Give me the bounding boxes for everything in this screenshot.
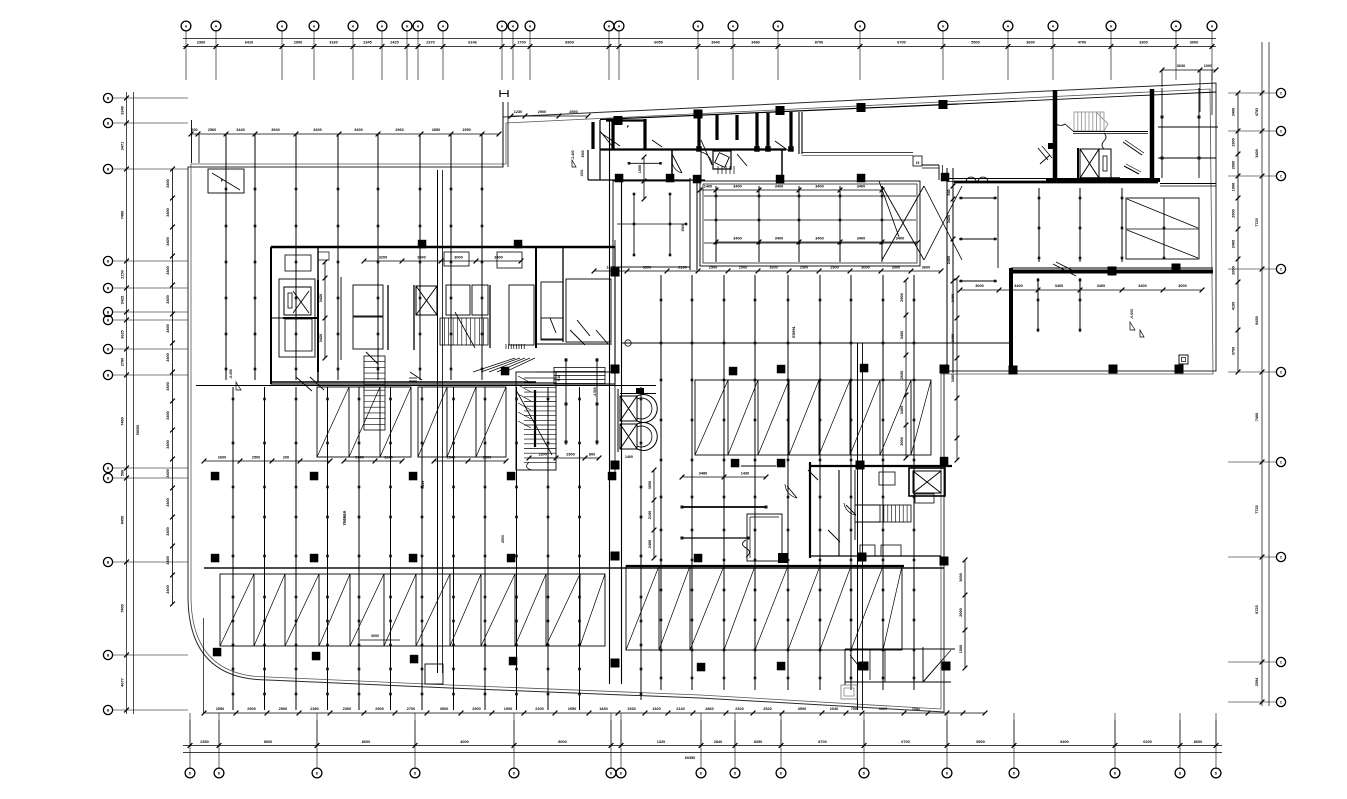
svg-text:3000: 3000: [959, 573, 963, 581]
svg-text:2200: 2200: [535, 707, 543, 711]
svg-text:3400: 3400: [313, 128, 321, 132]
svg-text:2300: 2300: [343, 707, 351, 711]
svg-text:-0.600: -0.600: [1130, 309, 1134, 319]
svg-text:3400: 3400: [1097, 284, 1105, 288]
svg-text:50650: 50650: [136, 425, 140, 436]
svg-text:2000: 2000: [959, 608, 963, 616]
svg-text:1900: 1900: [1232, 138, 1236, 146]
svg-text:1001: 1001: [580, 169, 584, 176]
svg-text:8700: 8700: [815, 41, 823, 45]
svg-text:540: 540: [947, 189, 951, 195]
svg-text:2950: 2950: [568, 707, 576, 711]
svg-text:3600: 3600: [1026, 41, 1034, 45]
svg-text:2780: 2780: [121, 358, 125, 366]
svg-text:2900: 2900: [538, 110, 546, 114]
svg-text:2320: 2320: [735, 707, 743, 711]
svg-text:1950: 1950: [462, 128, 470, 132]
svg-text:3000: 3000: [861, 266, 869, 270]
svg-text:4792: 4792: [1255, 108, 1259, 116]
svg-text:Y6666A: Y6666A: [342, 510, 347, 525]
svg-text:2900: 2900: [566, 453, 574, 457]
svg-text:4677: 4677: [121, 678, 125, 686]
svg-text:8450: 8450: [1255, 316, 1259, 324]
svg-text:3000: 3000: [900, 437, 904, 445]
svg-text:3000: 3000: [1190, 41, 1198, 45]
svg-text:3420: 3420: [319, 294, 323, 302]
svg-text:3140: 3140: [384, 456, 392, 460]
svg-text:-4.500: -4.500: [593, 387, 597, 397]
svg-text:3940: 3940: [711, 41, 719, 45]
svg-text:3400: 3400: [900, 331, 904, 339]
svg-text:2560: 2560: [208, 128, 216, 132]
svg-text:1900: 1900: [1232, 183, 1236, 191]
svg-text:3400: 3400: [951, 294, 955, 302]
svg-text:3400: 3400: [166, 440, 170, 448]
svg-text:6059: 6059: [654, 41, 662, 45]
svg-text:1920: 1920: [652, 707, 660, 711]
svg-text:800: 800: [589, 453, 595, 457]
svg-text:8000: 8000: [264, 740, 272, 744]
svg-text:E5991: E5991: [791, 325, 796, 337]
svg-text:3500: 3500: [440, 707, 448, 711]
svg-text:2540: 2540: [447, 456, 455, 460]
svg-text:8450: 8450: [121, 516, 125, 524]
svg-text:15: 15: [916, 161, 920, 165]
svg-text:3000: 3000: [892, 266, 900, 270]
svg-text:3400: 3400: [166, 527, 170, 535]
svg-text:3400: 3400: [1138, 284, 1146, 288]
svg-text:6700: 6700: [897, 41, 905, 45]
svg-text:2160: 2160: [678, 266, 686, 270]
svg-text:3400: 3400: [166, 556, 170, 564]
svg-text:7480: 7480: [121, 211, 125, 219]
svg-text:3400: 3400: [166, 411, 170, 419]
svg-text:2860: 2860: [705, 707, 713, 711]
svg-text:2345: 2345: [363, 41, 371, 45]
svg-text:5500: 5500: [971, 41, 979, 45]
svg-text:1900: 1900: [504, 707, 512, 711]
svg-text:2900: 2900: [830, 266, 838, 270]
svg-text:3400: 3400: [733, 237, 741, 241]
svg-text:2500: 2500: [501, 535, 505, 543]
svg-text:2150: 2150: [121, 270, 125, 278]
svg-text:2500: 2500: [739, 266, 747, 270]
svg-text:3000: 3000: [1178, 284, 1186, 288]
svg-text:3400: 3400: [166, 382, 170, 390]
svg-text:4700: 4700: [1078, 41, 1086, 45]
svg-text:2700: 2700: [407, 707, 415, 711]
svg-text:600: 600: [191, 128, 197, 132]
svg-text:3300: 3300: [643, 266, 651, 270]
svg-text:2900: 2900: [1232, 209, 1236, 217]
svg-text:2500: 2500: [709, 266, 717, 270]
svg-text:1500: 1500: [681, 224, 685, 232]
svg-text:2900: 2900: [375, 707, 383, 711]
svg-text:3900: 3900: [417, 256, 425, 260]
svg-text:5149: 5149: [355, 456, 363, 460]
svg-text:3400: 3400: [857, 185, 865, 189]
svg-text:3030: 3030: [1177, 64, 1185, 68]
svg-text:7725: 7725: [1255, 218, 1259, 226]
svg-text:3400: 3400: [900, 406, 904, 414]
svg-text:2600: 2600: [900, 371, 904, 379]
svg-text:4000: 4000: [460, 740, 468, 744]
svg-text:2960: 2960: [395, 128, 403, 132]
svg-text:3400: 3400: [166, 498, 170, 506]
svg-text:2360: 2360: [197, 41, 205, 45]
svg-text:3400: 3400: [951, 374, 955, 382]
svg-text:2500: 2500: [279, 707, 287, 711]
svg-text:1430: 1430: [741, 472, 749, 476]
svg-text:2550: 2550: [216, 707, 224, 711]
svg-text:3400: 3400: [775, 185, 783, 189]
svg-text:3400: 3400: [1055, 284, 1063, 288]
svg-text:3400: 3400: [166, 585, 170, 593]
svg-text:2140: 2140: [676, 707, 684, 711]
svg-text:2900: 2900: [294, 41, 302, 45]
svg-text:8000: 8000: [362, 740, 370, 744]
svg-text:6146: 6146: [468, 41, 476, 45]
svg-text:3000: 3000: [454, 256, 462, 260]
svg-text:200: 200: [283, 456, 289, 460]
svg-text:3400: 3400: [1232, 108, 1236, 116]
svg-text:8000: 8000: [1194, 740, 1202, 744]
svg-text:3400: 3400: [951, 334, 955, 342]
svg-text:3400: 3400: [857, 237, 865, 241]
svg-text:1600: 1600: [769, 266, 777, 270]
svg-text:3700: 3700: [1232, 347, 1236, 355]
svg-text:8400: 8400: [1060, 740, 1068, 744]
svg-text:3420: 3420: [947, 215, 951, 223]
svg-text:Y199: Y199: [421, 481, 425, 489]
svg-text:3625: 3625: [121, 330, 125, 338]
svg-text:3400: 3400: [1255, 149, 1259, 157]
svg-text:1400: 1400: [625, 455, 633, 459]
svg-text:2600: 2600: [218, 456, 226, 460]
svg-text:3940: 3940: [271, 128, 279, 132]
svg-text:3400: 3400: [166, 469, 170, 477]
svg-text:8309: 8309: [565, 41, 573, 45]
svg-text:3400: 3400: [1014, 284, 1022, 288]
svg-text:6410: 6410: [245, 41, 253, 45]
svg-text:6200: 6200: [1143, 740, 1151, 744]
svg-text:7480: 7480: [121, 417, 125, 425]
svg-text:3050: 3050: [648, 481, 652, 489]
svg-text:3160: 3160: [329, 41, 337, 45]
svg-text:2500: 2500: [252, 456, 260, 460]
svg-text:2380: 2380: [310, 707, 318, 711]
svg-text:2840: 2840: [714, 740, 722, 744]
svg-text:3400: 3400: [896, 237, 904, 241]
svg-text:3600: 3600: [922, 266, 930, 270]
svg-text:3400: 3400: [775, 237, 783, 241]
svg-text:7400: 7400: [121, 604, 125, 612]
svg-text:3471: 3471: [121, 142, 125, 150]
svg-text:1500: 1500: [959, 645, 963, 653]
svg-text:500: 500: [121, 470, 125, 476]
svg-text:2100: 2100: [648, 511, 652, 519]
svg-text:3480: 3480: [699, 472, 707, 476]
svg-text:2500: 2500: [569, 110, 577, 114]
svg-text:3400: 3400: [166, 237, 170, 245]
svg-text:1320: 1320: [657, 740, 665, 744]
svg-text:2400: 2400: [1232, 240, 1236, 248]
svg-text:3480: 3480: [751, 41, 759, 45]
svg-text:1400: 1400: [704, 185, 712, 189]
svg-text:1930: 1930: [627, 707, 635, 711]
svg-text:8350: 8350: [754, 740, 762, 744]
svg-text:2425: 2425: [390, 41, 398, 45]
svg-text:8000: 8000: [558, 740, 566, 744]
svg-text:2900: 2900: [900, 293, 904, 301]
svg-text:1830: 1830: [599, 707, 607, 711]
svg-text:2000: 2000: [1232, 161, 1236, 169]
svg-text:1230: 1230: [514, 110, 522, 114]
svg-text:7725: 7725: [1255, 505, 1259, 513]
svg-text:3400: 3400: [815, 237, 823, 241]
svg-text:3400: 3400: [166, 208, 170, 216]
svg-text:2900: 2900: [247, 707, 255, 711]
svg-text:3000: 3000: [371, 634, 379, 638]
svg-text:2500: 2500: [800, 266, 808, 270]
svg-text:N18: N18: [557, 375, 561, 381]
svg-text:3300: 3300: [1139, 41, 1147, 45]
svg-text:4100: 4100: [1232, 302, 1236, 310]
svg-text:2900: 2900: [472, 707, 480, 711]
svg-text:3500: 3500: [798, 707, 806, 711]
svg-text:1300: 1300: [538, 453, 546, 457]
svg-text:1000: 1000: [1204, 64, 1212, 68]
svg-text:7400: 7400: [1255, 413, 1259, 421]
svg-text:2000: 2000: [1232, 266, 1236, 274]
svg-text:2040: 2040: [830, 707, 838, 711]
svg-text:3420: 3420: [319, 334, 323, 342]
svg-text:2500: 2500: [483, 456, 491, 460]
svg-text:2520: 2520: [763, 707, 771, 711]
svg-text:2850: 2850: [432, 128, 440, 132]
svg-text:3400: 3400: [354, 128, 362, 132]
svg-text:-2.400: -2.400: [571, 150, 575, 159]
svg-text:3348: 3348: [121, 106, 125, 114]
svg-text:3200: 3200: [379, 256, 387, 260]
svg-text:3400: 3400: [166, 295, 170, 303]
svg-text:2400: 2400: [947, 256, 951, 264]
svg-text:3400: 3400: [166, 324, 170, 332]
svg-text:3400: 3400: [815, 185, 823, 189]
svg-text:2370: 2370: [426, 41, 434, 45]
svg-text:3400: 3400: [166, 266, 170, 274]
svg-text:1500: 1500: [638, 165, 642, 173]
svg-text:3000: 3000: [975, 284, 983, 288]
svg-text:2350: 2350: [200, 740, 208, 744]
svg-text:3400: 3400: [166, 353, 170, 361]
svg-text:6700: 6700: [901, 740, 909, 744]
svg-text:2400: 2400: [648, 540, 652, 548]
svg-text:2425: 2425: [121, 296, 125, 304]
svg-text:3560: 3560: [581, 150, 585, 157]
svg-text:2594: 2594: [1255, 677, 1259, 686]
svg-text:3400: 3400: [733, 185, 741, 189]
svg-text:3400: 3400: [166, 179, 170, 187]
svg-text:3400: 3400: [494, 256, 502, 260]
svg-text:60350: 60350: [685, 756, 696, 760]
svg-text:8725: 8725: [1255, 605, 1259, 613]
svg-text:3440: 3440: [236, 128, 244, 132]
svg-text:-0.450: -0.450: [229, 369, 233, 379]
svg-text:700: 700: [851, 707, 857, 711]
svg-text:8700: 8700: [818, 740, 826, 744]
svg-text:1700: 1700: [517, 41, 525, 45]
svg-text:5500: 5500: [976, 740, 984, 744]
